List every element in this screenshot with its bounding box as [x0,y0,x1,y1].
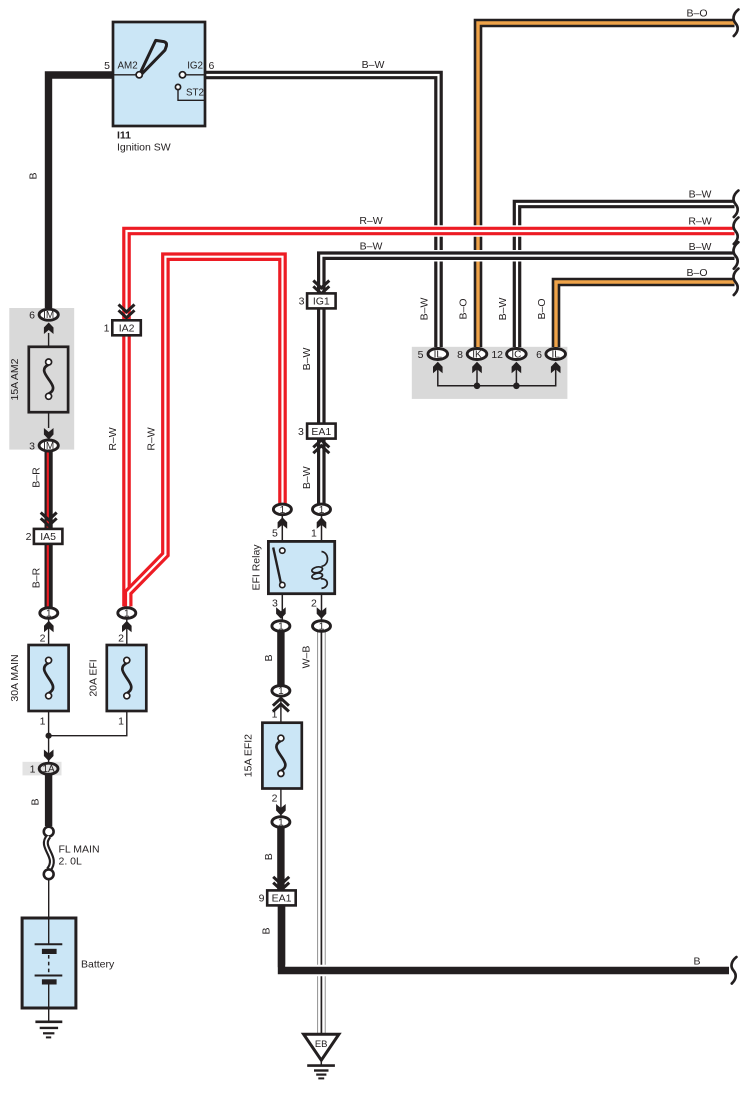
svg-text:B–O: B–O [686,267,707,279]
svg-text:1: 1 [40,716,46,728]
ignition switch IG2 contact [179,72,185,78]
svg-text:1A: 1A [42,764,55,775]
svg-text:1: 1 [280,505,286,516]
ignition switch ST2 contact [175,84,180,89]
wire B-O from top right to junction connector IK pin 8 [478,23,735,347]
svg-text:R–W: R–W [359,215,382,227]
svg-text:1: 1 [278,621,284,632]
svg-text:R–W: R–W [107,427,119,450]
fuse 15A AM2 [29,347,68,412]
arrow into oval above 20A EFI [122,621,132,633]
svg-text:B–W: B–W [418,298,430,321]
fuse 20A EFI [107,645,147,711]
svg-text:ST2: ST2 [186,88,204,99]
svg-text:IM: IM [43,441,54,452]
junction bus node dot 2 [513,383,520,390]
ignition switch internal wire IG2 side [186,74,206,76]
wire B-W from right edge to junction connector IC pin 12 [517,204,735,347]
connector EA1 box (pin 9) [267,890,296,905]
svg-text:B–W: B–W [497,298,509,321]
arrow into oval above 30A MAIN [44,621,54,633]
arrow into oval below relay pin 3 [276,607,286,619]
chevrons into IG1 [313,281,329,288]
connector IM pin 6 oval [39,309,58,320]
svg-text:B: B [263,853,275,860]
svg-text:B–R: B–R [31,567,43,588]
ignition switch I11 box [113,22,205,126]
svg-text:1: 1 [319,621,325,632]
svg-text:R–W: R–W [146,427,158,450]
connector EA1 box (pin 3) [307,424,336,439]
connector oval above 30A MAIN [40,608,58,619]
svg-text:IG1: IG1 [313,296,330,308]
wire B-W from right edge to connector IG1 [321,256,734,295]
svg-text:IA5: IA5 [40,531,56,543]
ignition switch internal wire ST2 side [178,90,205,101]
wire W-B from EFI relay pin 2 to ground EB [317,632,326,1035]
relay coil [322,552,328,567]
connector IA5 box [34,529,63,544]
connector oval at relay pin 5 [273,504,291,515]
svg-text:1: 1 [30,764,36,776]
connector oval above 15A EFI2 [272,686,290,697]
svg-text:15A EFI2: 15A EFI2 [243,734,255,777]
wire B-R from connector IM pin 3 to connector IA5 [44,450,52,529]
svg-text:B–W: B–W [362,59,385,71]
fuse 30A MAIN [29,645,69,711]
wire thin 20A EFI fuse lower lead to junction node [126,619,128,657]
wire B-W from connector IG1 to connector EA1 [317,307,326,424]
connector IA2 box [112,320,141,335]
wire thin through 15A AM2 fuse [48,333,50,360]
chevrons into oval above 15A EFI2 [273,698,289,705]
wire B-W from ignition IG2 pin 6 to junction connector IL pin 5 [205,75,439,347]
arrow into oval below 15A EFI2 [276,804,286,816]
svg-text:B: B [28,172,40,179]
svg-text:B: B [693,956,700,968]
svg-text:Battery: Battery [81,959,115,971]
svg-text:B: B [263,654,275,661]
svg-text:2: 2 [311,597,317,609]
continuation mark B-W 1 [734,191,739,218]
arrow into connector 1A [44,750,54,762]
ground EB triangle [304,1034,339,1060]
junction node dot (battery feed split) [46,733,52,739]
relay pin lines [282,516,321,620]
svg-text:AM2: AM2 [118,61,138,72]
svg-text:B–W: B–W [301,348,313,371]
svg-text:2: 2 [26,531,32,543]
svg-text:IL: IL [552,349,561,360]
ground symbol below battery [35,1020,62,1023]
svg-text:2: 2 [272,793,278,805]
connector IL pin 5 oval [428,349,448,360]
wire R-W from right edge to connector IA2 [127,231,735,320]
svg-text:1: 1 [278,686,284,697]
ground symbol below EB [320,1060,322,1065]
arrow into IC pin 12 [512,362,522,374]
arrow into IK pin 8 [472,362,482,374]
connector 1A shading strip [23,762,62,776]
svg-text:3: 3 [299,296,305,308]
svg-text:6: 6 [209,60,215,72]
wire B (thick) from connector 1A to fusible link FL MAIN [45,775,52,826]
ignition switch internal wire AM2 side [113,74,136,76]
svg-text:B–O: B–O [686,8,707,20]
connector IC pin 12 oval [507,349,527,360]
connector IG1 box [307,293,336,308]
svg-text:EA1: EA1 [311,426,331,438]
svg-text:EFI Relay: EFI Relay [251,544,263,591]
wire B (thick) from EFI relay pin 3 to 15A EFI2 fuse [277,632,284,685]
connector IM pin 3 oval [39,440,58,451]
arrow into IM pin 3 [44,428,54,440]
fuse 15A EFI2 [262,723,301,789]
svg-text:5: 5 [104,60,110,72]
chevrons into EA1 pin 9 [273,877,289,884]
svg-text:IA2: IA2 [119,323,135,335]
continuation mark B-O 2 [734,269,739,296]
relay switch contact [273,548,281,584]
svg-text:12: 12 [491,349,503,361]
svg-text:1: 1 [118,716,124,728]
svg-text:1: 1 [278,817,284,828]
junction bus wire [438,366,556,386]
wire B (thick) from 15A EFI2 fuse to connector EA1 pin 9 [277,828,284,890]
arrow into oval below relay pin 2 [317,607,327,619]
arrow into IL pin 5 [433,362,443,374]
svg-text:1: 1 [46,608,52,619]
chevrons into EA1 from below [313,440,329,447]
connector oval at relay pin 1 [313,504,331,515]
continuation mark B-W 2 [734,242,739,269]
battery internal symbol [48,918,50,944]
arrow into relay pin 5 oval [278,517,288,529]
wire R-W from connector IA2 down to 20A EFI fuse terminal [122,336,131,607]
svg-text:B–W: B–W [689,241,712,253]
svg-text:1: 1 [319,505,325,516]
wire R-W branch from EFI relay pin 5 over to 20A EFI fuse terminal [128,257,282,607]
svg-text:IM: IM [43,310,54,321]
wire B (thick) from connector EA1 pin 9 to right edge [278,904,285,967]
svg-text:3: 3 [29,440,35,452]
svg-text:1: 1 [124,608,130,619]
svg-text:I11: I11 [117,130,131,142]
svg-text:5: 5 [418,349,424,361]
continuation mark B-O top [734,10,739,37]
arrow into IM pin 6 [44,323,54,335]
svg-text:IL: IL [434,349,443,360]
svg-text:1: 1 [104,323,110,335]
svg-text:B–W: B–W [689,189,712,201]
svg-text:EA1: EA1 [272,893,292,905]
fusible link FL MAIN [44,827,54,837]
svg-text:1: 1 [272,709,278,721]
svg-text:20A EFI: 20A EFI [88,659,100,696]
connector oval above 20A EFI [118,608,136,619]
ignition switch lever (wiper arm) [141,40,167,73]
svg-text:1: 1 [311,528,317,540]
svg-text:EB: EB [315,1039,328,1050]
connector IK pin 8 oval [467,349,487,360]
svg-text:B: B [30,798,42,805]
connector oval below relay pin 3 [272,621,290,632]
battery box [22,918,76,1008]
wire B-R from connector IA5 to 30A MAIN fuse terminal [44,544,52,608]
svg-text:B: B [261,927,273,934]
connector 1A oval [39,763,58,774]
svg-text:B–W: B–W [301,466,313,489]
svg-text:30A MAIN: 30A MAIN [9,654,21,701]
chevrons into IA5 [41,513,57,520]
connector IL pin 6 oval [546,349,566,360]
chevrons into IA2 [119,305,135,312]
svg-text:IG2: IG2 [187,61,203,72]
EFI relay box [268,541,334,593]
svg-text:FL MAIN: FL MAIN [59,844,100,856]
svg-text:8: 8 [457,349,463,361]
svg-text:9: 9 [259,893,265,905]
svg-text:B–R: B–R [31,467,43,488]
svg-text:5: 5 [272,528,278,540]
wire thin 15A EFI2 leads [280,697,282,816]
svg-text:W–B: W–B [301,646,313,669]
svg-text:3: 3 [272,597,278,609]
svg-text:Ignition SW: Ignition SW [117,142,171,154]
junction bus node dot 1 [474,383,481,390]
connector oval below 15A EFI2 [272,817,290,828]
arrow into IL pin 6 [551,362,561,374]
svg-text:IK: IK [472,349,482,360]
wire B-W from connector EA1 to EFI relay pin 1 [317,438,326,503]
junction block shading (left, 15A AM2 fuse area) [9,308,74,450]
svg-text:R–W: R–W [688,216,711,228]
junction connector shading (right, IL/IK/IC/IL) [412,347,568,399]
svg-text:IC: IC [511,349,521,360]
svg-text:6: 6 [29,310,35,322]
ignition switch AM2 contact [136,72,142,78]
arrow into relay pin 1 oval [317,517,327,529]
wire B-O from right edge to junction connector IL pin 6 [556,282,735,347]
wire thin from FL MAIN to battery positive [48,878,50,920]
continuation mark B bottom [732,957,737,984]
svg-text:15A AM2: 15A AM2 [9,358,21,400]
svg-text:6: 6 [536,349,542,361]
svg-text:B–W: B–W [360,241,383,253]
svg-text:B–O: B–O [458,298,470,319]
svg-text:2. 0L: 2. 0L [59,856,83,868]
svg-text:3: 3 [298,426,304,438]
svg-text:B–O: B–O [536,298,548,319]
wire B (thick) from battery side to ignition AM2 pin 5 [49,75,114,308]
wire thin from battery negative to ground [48,1006,50,1021]
wire thin 30A MAIN fuse to junction with 20A EFI branch [48,619,50,657]
connector oval below relay pin 2 [313,621,331,632]
svg-text:2: 2 [118,633,124,645]
svg-text:2: 2 [40,633,46,645]
continuation mark R-W [734,218,739,245]
